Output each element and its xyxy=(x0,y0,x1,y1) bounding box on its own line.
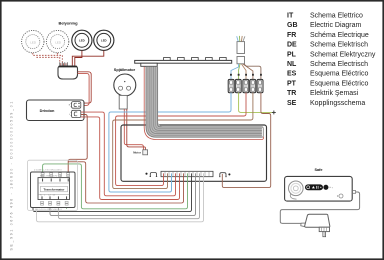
safe small button xyxy=(339,194,343,198)
svg-text:PRI 230V 50Hz 4: PRI 230V 50Hz 4 xyxy=(40,175,62,177)
board terminal strip xyxy=(161,171,213,176)
wire red block3 west loop xyxy=(116,93,246,186)
svg-text:Transformator: Transformator xyxy=(44,188,66,192)
junction box xyxy=(58,66,78,79)
wire red driver1 loop xyxy=(81,112,176,196)
svg-text:TR: TR xyxy=(287,90,296,97)
wire dark block5 loop to right connector xyxy=(222,93,270,188)
svg-text:FR: FR xyxy=(287,32,296,39)
lamp LED1 xyxy=(72,30,92,50)
safe unit box xyxy=(285,176,353,201)
wire LED1 to junction xyxy=(75,51,82,66)
cable gland top right xyxy=(237,36,245,64)
terminal block 5 xyxy=(257,79,263,92)
junction box pins xyxy=(60,62,68,66)
svg-text:Safe: Safe xyxy=(314,168,322,172)
svg-text:LED: LED xyxy=(55,40,61,44)
svg-text:NE 0+10 0+120 V+GE 0+ 0: NE 0+10 0+120 V+GE 0+ 0 xyxy=(35,209,63,211)
terminal block 2 xyxy=(235,79,241,92)
svg-text:ES: ES xyxy=(287,71,297,78)
board connector left xyxy=(145,173,157,177)
svg-text:LED: LED xyxy=(30,40,36,44)
wire LED2 to junction xyxy=(72,51,104,66)
svg-text:Elektrik Şemasi: Elektrik Şemasi xyxy=(310,90,359,97)
wire gray transformer bottom 2 xyxy=(58,173,199,218)
damper motor M1 xyxy=(114,74,136,96)
wire black transformer wrap xyxy=(33,172,192,212)
svg-text:N L 12 12: N L 12 12 xyxy=(40,195,56,197)
svg-text:Belysning: Belysning xyxy=(58,20,78,25)
svg-text:DE: DE xyxy=(287,42,297,49)
power adapter prong xyxy=(323,232,326,237)
wire junction to driver (pair) xyxy=(78,72,92,103)
transformer label xyxy=(40,186,67,191)
wire motor pair down to board xyxy=(124,109,143,150)
driver box (Drivdon) xyxy=(27,100,85,121)
terminal block 1 xyxy=(228,79,234,92)
terminal block 4 xyxy=(250,79,256,92)
power adapter plug nub xyxy=(301,223,306,227)
wire blue block1 west xyxy=(109,93,231,192)
wires cable to terminal blocks xyxy=(231,64,239,79)
transformer outer box xyxy=(28,160,78,210)
driver connector upper xyxy=(69,102,81,109)
wire red along ribbon xyxy=(144,67,263,140)
svg-text:IT: IT xyxy=(287,13,294,20)
svg-text:SE: SE xyxy=(287,100,297,107)
lamp L1 (optional, dashed) xyxy=(22,30,44,52)
svg-text:Drivdon: Drivdon xyxy=(40,108,55,113)
svg-text:Electric Diagram: Electric Diagram xyxy=(310,22,362,29)
svg-text:GB: GB xyxy=(287,22,298,29)
svg-text:LED: LED xyxy=(79,39,85,43)
terminal block 3 xyxy=(243,79,249,92)
svg-text:Schema Elektrisch: Schema Elektrisch xyxy=(310,42,368,49)
transformer body xyxy=(38,178,70,200)
motor base xyxy=(119,95,127,109)
lamp L2 (optional, dashed) xyxy=(46,30,68,52)
svg-text:0 V+NE 0+ T3 0 GN 0+GE 0: 0 V+NE 0+ T3 0 GN 0+GE 0 xyxy=(34,170,62,172)
wire darkgray transformer bottom xyxy=(50,173,196,215)
junction dots on block wires xyxy=(230,74,262,76)
lamp LED2 xyxy=(94,30,114,50)
control board (big box) xyxy=(121,125,267,181)
wire dashed lamp L2 drop xyxy=(57,53,59,55)
svg-text:Schemat Elektryczny: Schemat Elektryczny xyxy=(310,51,376,58)
wire dashed second row xyxy=(36,57,59,63)
svg-text:NL: NL xyxy=(287,61,297,68)
svg-text:Schema Elettrico: Schema Elettrico xyxy=(310,13,363,20)
svg-text:Spjällmotor: Spjällmotor xyxy=(114,67,136,72)
svg-text:PT: PT xyxy=(287,80,297,87)
svg-text:Schéma Electrique: Schéma Electrique xyxy=(310,32,369,39)
transformer tiny text rows xyxy=(34,170,63,211)
svg-text:PL: PL xyxy=(287,51,297,58)
power adapter body xyxy=(305,214,330,227)
language list xyxy=(287,13,376,107)
power adapter ribs xyxy=(319,227,329,231)
ribbon cable from rail to board xyxy=(146,67,263,138)
wire dashed lamp L1 to junction xyxy=(33,53,63,64)
svg-text:Motor: Motor xyxy=(133,151,142,155)
wire red driver to transformer xyxy=(68,115,87,179)
driver connector lower xyxy=(69,110,81,117)
svg-text:Esquema Eléctrico: Esquema Eléctrico xyxy=(310,80,368,87)
svg-text:SE_991 0676 496 - 180630 - D00: SE_991 0676 496 - 180630 - D000000000539… xyxy=(10,100,14,250)
safe speaker xyxy=(289,181,304,199)
svg-text:Kopplingsschema: Kopplingsschema xyxy=(310,100,365,107)
wire darkred loop (transformer area to strip) xyxy=(84,162,184,203)
board connector right xyxy=(219,173,230,177)
rail (hood mounting bar) xyxy=(135,58,232,67)
svg-text:Schema Electrisch: Schema Electrisch xyxy=(310,61,368,68)
svg-text:Esquema Eléctrico: Esquema Eléctrico xyxy=(310,71,368,78)
wire brown block4 west loop xyxy=(113,93,253,189)
wire green block2 to plus xyxy=(239,93,273,113)
svg-text:LED: LED xyxy=(101,39,107,43)
safe power cord xyxy=(280,192,359,224)
wire red driver2 loop xyxy=(81,117,180,200)
transformer bottom terminals xyxy=(42,196,67,199)
transformer inner box xyxy=(31,172,76,208)
wire lightgray outer xyxy=(37,173,204,221)
motor connector on board xyxy=(143,150,148,155)
wire brown T4 riser xyxy=(68,159,70,176)
safe control pill xyxy=(305,184,334,190)
node plus xyxy=(272,111,276,115)
wire green transformer to strip xyxy=(43,164,188,209)
transformer top terminals xyxy=(43,179,69,182)
wire green stub from transformer bottom xyxy=(66,199,68,208)
